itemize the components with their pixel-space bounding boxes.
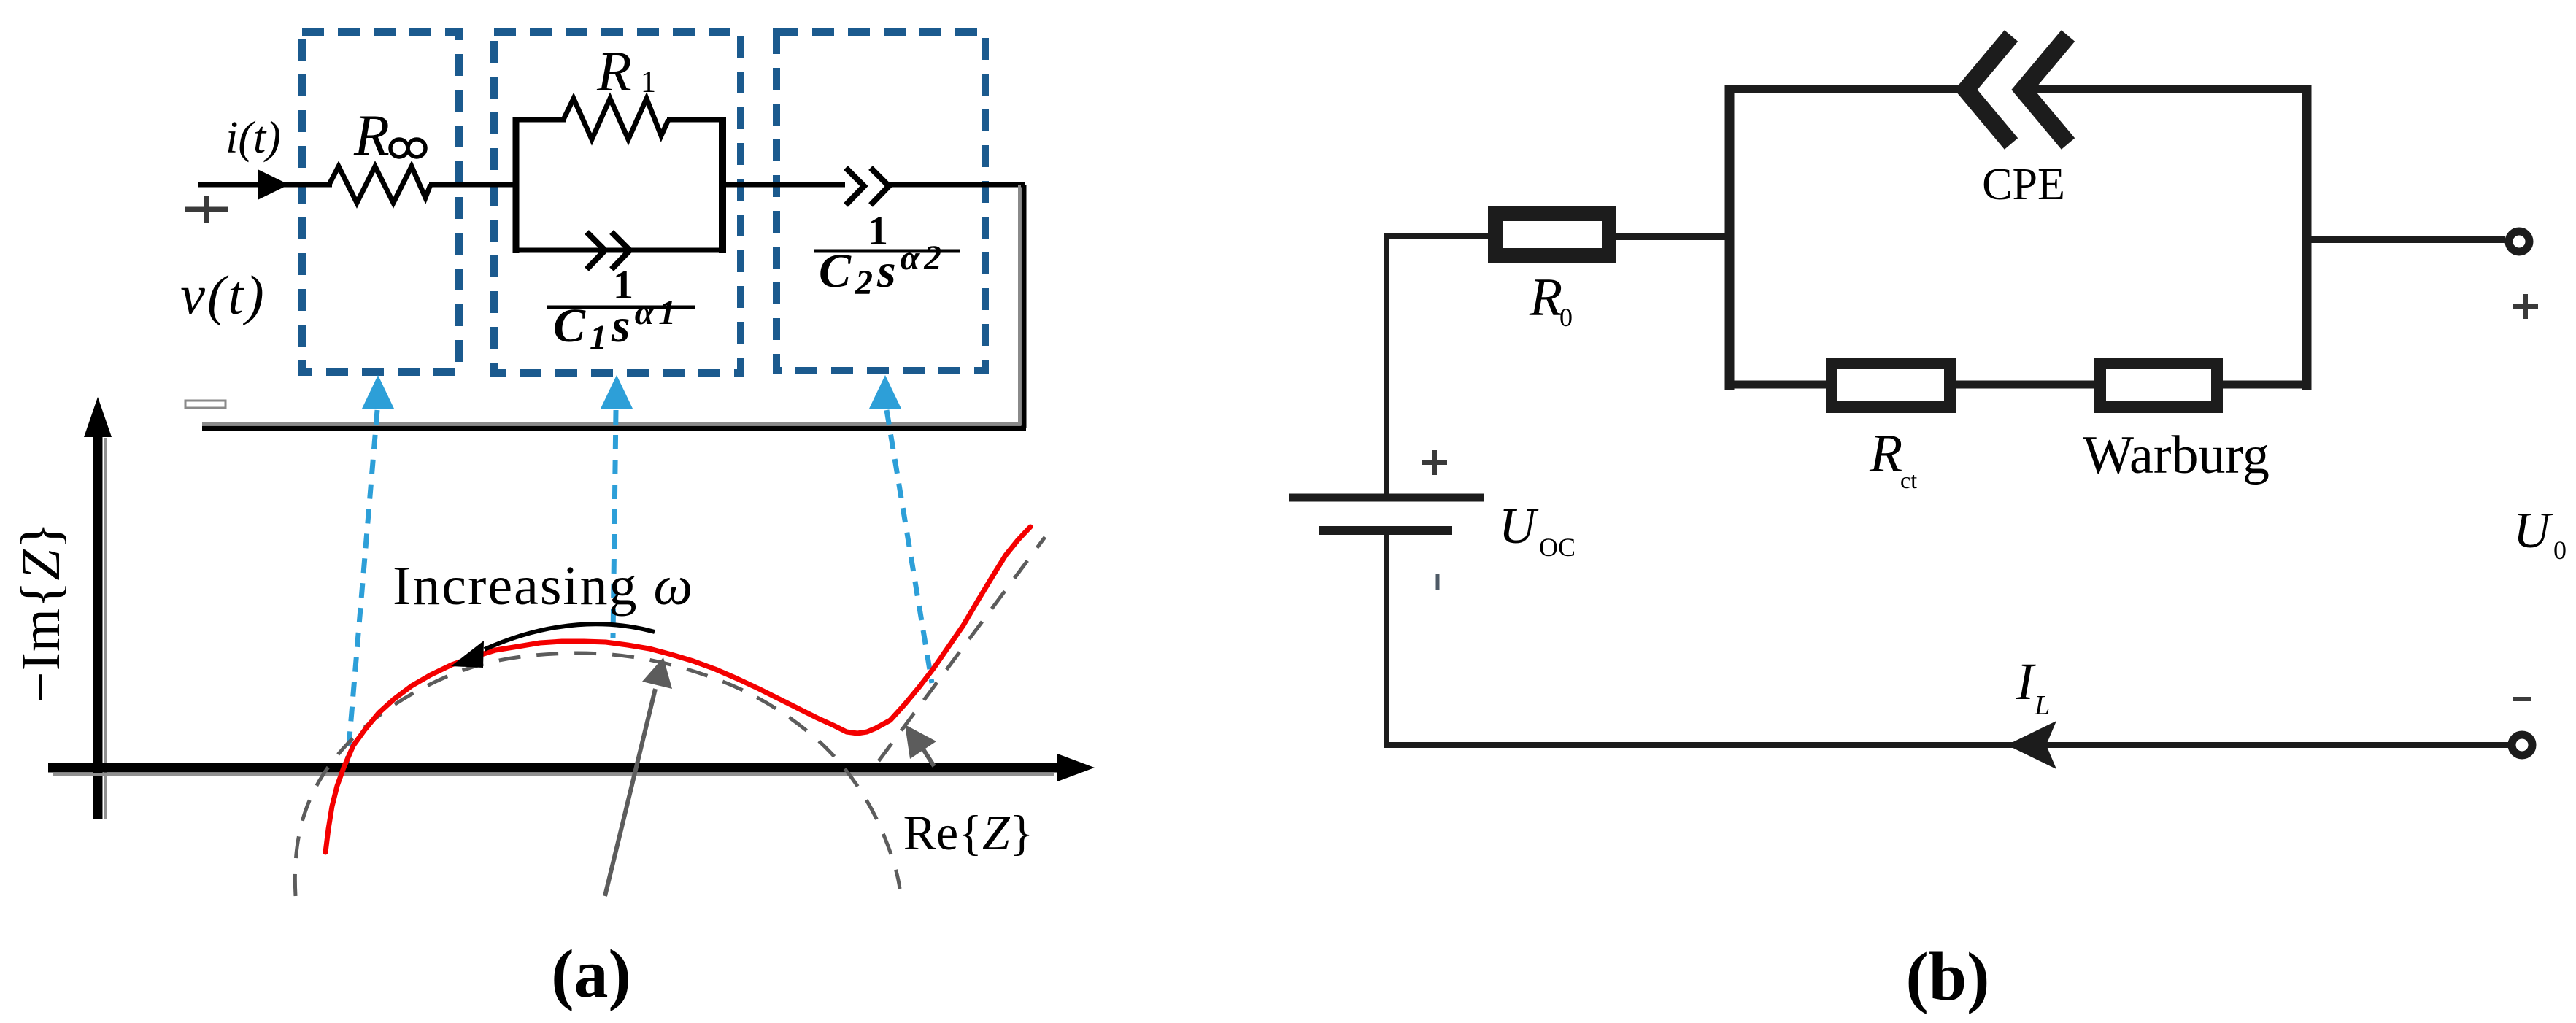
- wire R0 to parallel block: [1616, 233, 1729, 240]
- dashed box Z3 (around CPE2): [776, 32, 985, 371]
- blue arrow C (box Z3 to diffusion tail): [869, 375, 932, 683]
- resistor Warburg: [2100, 363, 2217, 407]
- node - (output terminal minus): [2513, 697, 2531, 701]
- svg-text:I: I: [2016, 652, 2036, 711]
- CPE2 symbol (double chevron): [846, 168, 864, 205]
- node + (input terminal plus): [185, 196, 228, 223]
- current arrow IL: [2007, 721, 2056, 769]
- Nyquist plot y-axis: [104, 438, 107, 819]
- wire bottom branch of parallel block: [513, 248, 725, 253]
- resistor R1: [563, 99, 668, 139]
- svg-text:v(t): v(t): [180, 265, 266, 326]
- node left bar of CPE parallel block: [1725, 85, 1735, 390]
- dashed diffusion tail line: [879, 537, 1045, 761]
- wire top branch left: [1725, 85, 1963, 93]
- battery cell UOC plate long: [1289, 494, 1484, 502]
- node - (battery minus tick): [1436, 574, 1440, 590]
- wire bottom branch left: [1725, 381, 1833, 389]
- svg-text:Warburg: Warburg: [2083, 425, 2270, 485]
- resistor R-infinity: [329, 166, 431, 203]
- svg-text:R: R: [596, 39, 632, 103]
- Nyquist plot x-axis: [53, 773, 1054, 776]
- blue arrow B (box Z2 to curve peak): [601, 375, 633, 638]
- svg-text:1: 1: [641, 66, 656, 99]
- wire top branch right: [2024, 85, 2311, 93]
- svg-text:0: 0: [1559, 303, 1573, 332]
- wire top branch left: [513, 117, 566, 123]
- wire return (gray ghost): [202, 185, 1021, 423]
- svg-text:R: R: [353, 104, 390, 168]
- terminal positive: [2509, 231, 2529, 252]
- wire return bottom: [202, 185, 1026, 428]
- svg-text:R: R: [1529, 268, 1562, 328]
- dashed semicircle arc: [295, 653, 900, 896]
- wire between Rct and Warburg: [1950, 381, 2100, 389]
- resistor Rct: [1832, 363, 1950, 407]
- svg-text:−Im{Z}: −Im{Z}: [10, 522, 72, 703]
- node right bar of CPE parallel block: [2302, 85, 2312, 390]
- svg-text:R: R: [1869, 424, 1902, 484]
- node + (battery plus): [1422, 450, 1447, 475]
- current arrow on input wire: [258, 169, 289, 200]
- CPE1 symbol (double chevron): [587, 232, 605, 269]
- svg-text:OC: OC: [1539, 533, 1576, 562]
- node + (output terminal plus): [2513, 294, 2538, 319]
- svg-text:ct: ct: [1900, 467, 1917, 493]
- wire input top: [198, 182, 332, 188]
- CPE symbol (double chevron left): [1966, 36, 2011, 144]
- wire CPE2 to right corner: [886, 182, 1025, 188]
- svg-text:U: U: [1499, 498, 1539, 555]
- wire parallel block to CPE2: [722, 182, 845, 188]
- svg-text:L: L: [2034, 690, 2050, 721]
- svg-text:i(t): i(t): [225, 113, 281, 163]
- resistor R0: [1495, 214, 1609, 255]
- wire top branch right: [667, 117, 725, 123]
- gray arrow to semicircle: [605, 689, 655, 896]
- wire Warburg to right bar: [2217, 381, 2311, 389]
- gray arrow to tail: [921, 746, 934, 766]
- svg-text:(a): (a): [551, 936, 631, 1012]
- svg-text:U: U: [2513, 503, 2553, 559]
- wire output positive: [2307, 236, 2505, 243]
- node left bar of R1-CPE1 parallel block: [513, 117, 520, 253]
- wire battery top to R0: [1384, 234, 1495, 494]
- svg-text:CPE: CPE: [1982, 160, 2065, 209]
- red impedance curve: [325, 527, 1030, 852]
- dashed box Z2 (around R1 parallel CPE1): [494, 32, 741, 373]
- battery cell UOC plate short: [1319, 526, 1452, 535]
- svg-text:0: 0: [2553, 536, 2567, 565]
- node right bar of R1-CPE1 parallel block: [719, 117, 726, 253]
- terminal negative: [2512, 735, 2532, 755]
- wire battery bottom to rail: [1384, 534, 2508, 745]
- svg-text:Re{Z}: Re{Z}: [903, 805, 1034, 860]
- blue arrow A (box Z1 to curve): [347, 375, 394, 763]
- curved arrow increasing omega: [485, 624, 655, 649]
- dashed box Z1 (around R-infinity): [302, 32, 459, 372]
- wire R-infinity to parallel block: [429, 182, 516, 188]
- svg-text:(b): (b): [1906, 939, 1990, 1015]
- svg-text:Increasing ω: Increasing ω: [393, 555, 694, 617]
- node - (input terminal minus): [185, 401, 225, 408]
